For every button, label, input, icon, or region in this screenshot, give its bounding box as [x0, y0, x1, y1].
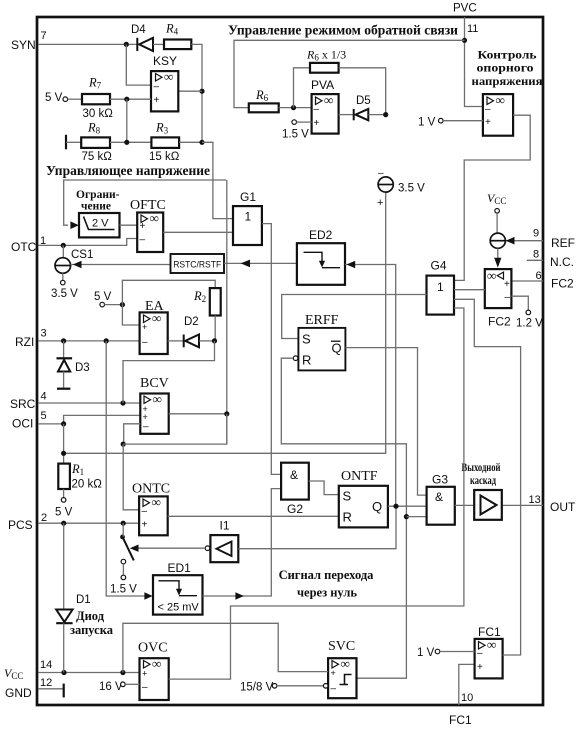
svg-text:R6 x 1/3: R6 x 1/3 — [306, 48, 346, 63]
svg-text:G2: G2 — [287, 502, 303, 516]
wire OFTC out to G1 input2 — [163, 231, 233, 233]
node VCC/D1 — [61, 670, 66, 675]
svg-text:через нуль: через нуль — [297, 586, 357, 600]
node D2/R2 — [212, 338, 217, 343]
svg-text:ONTF: ONTF — [341, 469, 378, 484]
wire limiter to OFTC plus — [120, 224, 138, 226]
svg-text:∞: ∞ — [152, 311, 161, 326]
svg-text:RSTC/RSTF: RSTC/RSTF — [173, 259, 221, 270]
svg-text:5 V: 5 V — [94, 291, 112, 303]
svg-text:13: 13 — [529, 494, 541, 506]
svg-text:OUT: OUT — [550, 500, 576, 514]
svg-text:1: 1 — [437, 280, 444, 294]
wire control line down to BCV output node — [226, 180, 228, 444]
svg-text:∞: ∞ — [164, 69, 173, 84]
svg-text:ERFF: ERFF — [305, 313, 339, 328]
svg-text:7: 7 — [41, 30, 47, 42]
svg-text:3.5 V: 3.5 V — [51, 288, 78, 300]
output stage box with triangle — [474, 490, 502, 520]
wire OCI — [38, 415, 140, 424]
svg-text:REF: REF — [551, 236, 575, 250]
bubble on ERFF R — [293, 356, 298, 361]
wire I1 input from ONTF Q line — [238, 506, 396, 549]
svg-text:∞: ∞ — [153, 392, 162, 407]
node KSY-out/R4 — [199, 89, 204, 94]
node R3/R4/G1-feed — [199, 140, 204, 145]
svg-text:–: – — [477, 648, 483, 659]
wire node to G1 input1 — [202, 142, 233, 218]
wire ED1 input from RZI node — [106, 341, 145, 596]
svg-text:PCS: PCS — [8, 518, 33, 532]
svg-text:D4: D4 — [131, 24, 146, 36]
svg-text:15 kΩ: 15 kΩ — [149, 151, 180, 163]
svg-text:∞: ∞ — [496, 93, 505, 108]
wire G4 out to FC2 — [454, 289, 485, 291]
svg-text:Управление режимом обратной св: Управление режимом обратной связи — [228, 23, 458, 38]
svg-text:+: + — [142, 669, 147, 679]
svg-text:–: – — [505, 292, 511, 303]
svg-text:OCI: OCI — [12, 417, 33, 431]
node PVC/heading junction — [462, 38, 467, 43]
wire R8 to R3 — [110, 141, 151, 143]
svg-text:D5: D5 — [356, 95, 371, 107]
svg-text:N.C.: N.C. — [550, 255, 574, 269]
wire 5V node down to EA plus — [122, 305, 139, 325]
zener D3 — [63, 341, 65, 359]
svg-text:9: 9 — [533, 228, 539, 240]
arrow into FC2 top — [494, 258, 501, 268]
svg-text:15/8 V: 15/8 V — [240, 682, 274, 694]
svg-text:Выходной: Выходной — [462, 460, 501, 474]
svg-text:SRC: SRC — [10, 397, 36, 411]
ground bar below D3 — [57, 388, 70, 390]
svg-text:SVC: SVC — [328, 639, 355, 654]
wire 5V node up to R2 top — [122, 280, 215, 304]
svg-text:D3: D3 — [75, 362, 90, 374]
ground bar left of R8 — [65, 135, 67, 150]
svg-text:SYN: SYN — [11, 38, 36, 52]
svg-text:∞: ∞ — [152, 656, 161, 671]
wire ED2 to RSTC/RSTF with arrow — [224, 262, 297, 264]
svg-text:KSY: KSY — [153, 54, 177, 68]
wire VCC to SVC input1 — [123, 623, 328, 672]
terminal 1.2V for FC2 minus — [511, 296, 528, 310]
wire R2 node down-left to SRC node — [123, 341, 215, 403]
wire KSY output — [178, 90, 202, 92]
wire PCS to ONTC plus — [38, 522, 139, 524]
wire VCC to OVC — [38, 672, 140, 674]
wire RSTC to CS1 with arrow — [71, 264, 171, 266]
wire PVA out to D5 — [339, 114, 354, 116]
svg-text:FC2: FC2 — [551, 277, 574, 291]
wire R4 to KSY output node — [191, 44, 202, 142]
svg-text:20 kΩ: 20 kΩ — [72, 479, 103, 491]
svg-text:5 V: 5 V — [45, 92, 63, 104]
ground bar GND — [63, 684, 65, 698]
wire R7 to KSY plus — [110, 98, 151, 100]
node Q/I1 — [393, 504, 398, 509]
wire R6 to PVA minus — [279, 107, 312, 109]
svg-text:30 kΩ: 30 kΩ — [83, 108, 114, 120]
svg-text:Ограни-: Ограни- — [76, 189, 120, 201]
wire ERFF Qbar to G3 input1 — [345, 348, 426, 496]
wire D4 to R4 — [153, 43, 164, 45]
wire OVC output loop to G4 — [169, 308, 464, 679]
svg-text:OFTC: OFTC — [130, 198, 166, 213]
svg-text:G3: G3 — [432, 473, 448, 487]
svg-text:+: + — [142, 322, 147, 332]
svg-text:1 V: 1 V — [418, 117, 436, 129]
svg-text:BCV: BCV — [140, 376, 169, 391]
svg-text:8: 8 — [533, 249, 539, 261]
node SYN/D4/KSY — [124, 42, 129, 47]
svg-text:Q: Q — [372, 499, 382, 514]
svg-text:напряжения: напряжения — [472, 74, 544, 88]
svg-text:S: S — [343, 489, 352, 504]
svg-text:–: – — [485, 104, 491, 115]
arrow into limiter — [70, 221, 78, 229]
svg-text:–: – — [142, 337, 148, 348]
svg-text:–: – — [142, 506, 148, 517]
wire node down to ONTC minus — [123, 444, 139, 510]
svg-text:&: & — [290, 468, 298, 482]
wire ERFF R from SVC line — [281, 358, 406, 678]
svg-text:+: + — [504, 279, 510, 290]
wire N.C. stub — [527, 259, 543, 261]
node PCS/switch — [121, 521, 126, 526]
node D5/3.5V-line — [383, 112, 388, 117]
wire ED2 input from ONTF Q line — [345, 265, 396, 507]
source 3.5V — [378, 177, 393, 192]
wire heading underline to R6 and PVC node — [234, 40, 465, 107]
svg-text:–: – — [140, 235, 146, 246]
svg-text:–: – — [143, 422, 149, 433]
svg-text:∞: ∞ — [487, 268, 496, 283]
svg-text:Q: Q — [332, 341, 342, 356]
svg-text:каскад: каскад — [470, 473, 496, 487]
svg-text:+: + — [485, 117, 491, 128]
svg-text:R: R — [343, 510, 352, 525]
node OCI — [61, 421, 66, 426]
wire control-voltage underline to limiter and down-line — [64, 180, 227, 225]
svg-text:+: + — [140, 221, 146, 232]
svg-text:2 V: 2 V — [92, 218, 109, 230]
node OTC/CS1 — [61, 243, 66, 248]
svg-text:+: + — [154, 95, 160, 106]
svg-text:Диод: Диод — [76, 609, 105, 623]
node R7/R8 riser — [124, 97, 129, 102]
wire EA out to D2 — [168, 340, 184, 342]
svg-text:I1: I1 — [220, 519, 230, 533]
svg-text:–: – — [314, 104, 320, 115]
wire pin11 PVC down to Kontrol block — [465, 17, 483, 107]
svg-text:CS1: CS1 — [71, 249, 93, 261]
svg-text:1.2 V: 1.2 V — [516, 318, 543, 330]
svg-text:RZI: RZI — [15, 335, 34, 349]
svg-text:2: 2 — [41, 512, 47, 524]
wire node to G3 input3 — [406, 516, 426, 518]
wire G2 out to ONTF S — [309, 481, 339, 495]
svg-text:Сигнал перехода: Сигнал перехода — [279, 568, 375, 582]
wire G1 output down to G2 input1 — [262, 224, 281, 475]
wire ONTF Q to G3 input2 — [388, 505, 427, 507]
svg-text:75 kΩ: 75 kΩ — [82, 151, 113, 163]
node SRC/R2-path — [120, 400, 125, 405]
svg-text:5: 5 — [41, 410, 47, 422]
svg-text:–: – — [378, 168, 384, 179]
svg-text:+: + — [143, 412, 148, 422]
svg-text:&: & — [435, 490, 443, 504]
svg-text:D1: D1 — [76, 594, 91, 606]
wire R3 right to node — [179, 141, 202, 143]
source REF current — [490, 233, 505, 248]
svg-text:запуска: запуска — [70, 623, 114, 637]
svg-text:+: + — [377, 197, 383, 209]
svg-text:PVC: PVC — [453, 3, 477, 15]
svg-text:∞: ∞ — [487, 637, 496, 652]
node RZI/ED1-feed — [104, 338, 109, 343]
svg-text:1 V: 1 V — [417, 647, 435, 659]
svg-text:< 25 mV: < 25 mV — [158, 602, 200, 614]
svg-text:∞: ∞ — [152, 495, 161, 510]
svg-text:1: 1 — [245, 210, 252, 224]
svg-text:5 V: 5 V — [55, 507, 73, 519]
switch contact terminals — [121, 559, 126, 564]
wire SRC to BCV — [38, 402, 140, 404]
switch lever — [120, 535, 125, 540]
wire node to control-line corner — [123, 414, 227, 444]
wire SYN — [38, 43, 137, 45]
node RZI/D3 — [61, 338, 66, 343]
svg-text:∞: ∞ — [341, 656, 350, 671]
svg-text:–: – — [331, 684, 337, 695]
svg-text:∞: ∞ — [324, 93, 333, 108]
svg-text:12: 12 — [40, 677, 52, 689]
block RSTC/RSTF — [171, 254, 225, 273]
wire GND — [38, 688, 63, 690]
wire FC2 pin — [511, 280, 543, 282]
node BCV-out/control-line — [224, 411, 229, 416]
node OCI/R1 — [61, 451, 66, 456]
wire G3 out to output stage — [455, 504, 474, 506]
svg-text:+: + — [142, 520, 148, 531]
svg-text:Контроль: Контроль — [478, 48, 538, 62]
wire RZI to EA minus — [38, 340, 140, 342]
wire OTC to OFTC minus (step) — [38, 239, 137, 246]
svg-text:S: S — [302, 332, 311, 347]
wire ED1 output to G2 input2 — [203, 489, 282, 596]
svg-text:OTC: OTC — [11, 240, 37, 254]
svg-text:10: 10 — [461, 692, 473, 704]
svg-text:1.5 V: 1.5 V — [282, 129, 309, 141]
node SVC-line/G3 — [404, 514, 409, 519]
svg-text:–: – — [142, 682, 148, 693]
svg-text:D2: D2 — [184, 316, 199, 328]
wire R6x1/3 to 3.5V line — [339, 68, 386, 115]
wire feedback riser to R6x1/3 — [294, 68, 311, 108]
wire BCV minus loop — [124, 424, 141, 444]
wire FC1 output loop to G4 upper stub — [454, 299, 521, 655]
svg-text:FC2: FC2 — [488, 315, 511, 329]
svg-text:1.5 V: 1.5 V — [110, 584, 137, 596]
svg-text:–: – — [154, 82, 160, 93]
wire D2 to R2 bottom node — [199, 340, 215, 342]
wire REF — [505, 240, 543, 242]
svg-text:PVA: PVA — [311, 78, 334, 92]
arrow into REF source — [506, 237, 515, 245]
node BCV-minus/ONTC — [121, 442, 126, 447]
svg-text:FC1: FC1 — [449, 713, 472, 727]
svg-text:GND: GND — [5, 686, 32, 700]
svg-text:R: R — [302, 353, 311, 368]
svg-text:G4: G4 — [431, 259, 447, 273]
wire OCI down to R1 and long line to 3.5V source — [63, 424, 65, 464]
node R8/R3/riser — [124, 140, 129, 145]
node 5V/EA/R2 — [120, 302, 125, 307]
svg-text:чение: чение — [81, 201, 111, 213]
comparator FC2 — [485, 269, 512, 308]
svg-text:OVC: OVC — [138, 641, 168, 656]
terminal 1.5V for PVA — [292, 120, 297, 125]
terminal 1V for Kontrol — [439, 118, 444, 123]
svg-text:11: 11 — [467, 23, 478, 35]
wire ONTC out to ONTF R — [168, 515, 339, 517]
svg-text:ED2: ED2 — [309, 228, 333, 242]
op-amp U-Kontrol — [483, 94, 513, 136]
wire G4 input / ERFF S line — [282, 295, 427, 339]
wire riser between R7 and R8 lines — [126, 99, 128, 142]
svg-text:3: 3 — [41, 328, 47, 340]
wire OUT — [502, 504, 543, 506]
svg-text:4: 4 — [41, 391, 47, 403]
wire KSY minus from SYN node — [126, 44, 151, 85]
node R6/feedback — [291, 105, 296, 110]
svg-text:6: 6 — [536, 270, 542, 282]
wire D5 to 3.5V node — [368, 114, 385, 116]
wire BCV out to control-line node — [169, 413, 227, 415]
svg-text:G1: G1 — [240, 190, 256, 204]
svg-text:+: + — [314, 118, 320, 129]
svg-text:∞: ∞ — [150, 211, 159, 226]
svg-text:опорного: опорного — [477, 61, 534, 75]
gate G2 — [281, 463, 309, 500]
node VCC/SVC-riser — [120, 670, 125, 675]
svg-text:+: + — [477, 662, 483, 673]
node PCS/D1 — [61, 521, 66, 526]
svg-text:16 V: 16 V — [99, 681, 123, 693]
svg-text:ED1: ED1 — [168, 561, 192, 575]
wire I1 out to switch arrow — [137, 547, 205, 549]
svg-text:3.5 V: 3.5 V — [398, 183, 425, 195]
svg-text:+: + — [331, 668, 336, 678]
svg-text:Управляющее напряжение: Управляющее напряжение — [46, 163, 210, 178]
5V terminal for R7 — [63, 97, 68, 102]
wire Kontrol output loop to G4 — [454, 115, 530, 280]
svg-text:14: 14 — [40, 659, 52, 671]
wire pin10 to FC1 plus — [459, 664, 475, 705]
